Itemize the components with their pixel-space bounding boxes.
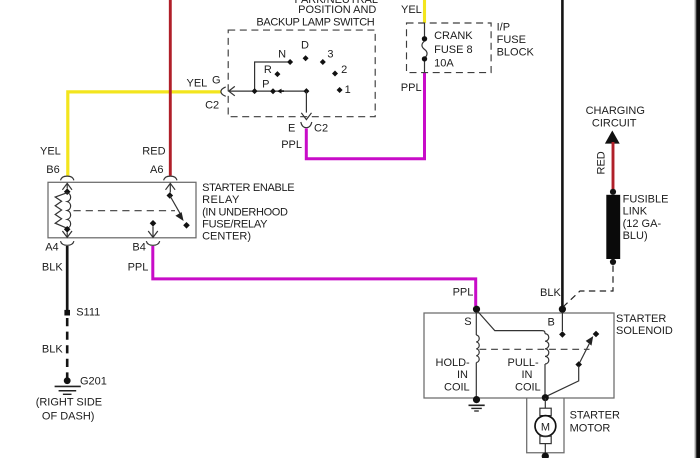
svg-text:FUSE 8: FUSE 8 [434,44,473,56]
pin B6 arrow [62,183,72,189]
svg-text:PPL: PPL [401,82,422,94]
node junction G-line left [252,88,258,94]
node motor bottom [542,453,549,458]
node motor feed [542,394,549,401]
node terminal S [473,306,480,313]
svg-text:IN: IN [522,369,533,381]
wire BLK relay A4 to splice S111 [66,246,69,311]
svg-text:HOLD-: HOLD- [436,357,471,369]
pin A6 arrow [166,183,176,192]
wire RED feed to relay A6 [169,0,172,176]
contact P [270,88,276,94]
label PPL at solenoid [453,287,474,299]
svg-text:PULL-: PULL- [508,357,540,369]
svg-text:IN: IN [457,369,468,381]
labels A4 BLK B4 PPL [42,242,148,274]
label STARTER SOLENOID [616,313,673,337]
svg-text:1: 1 [345,84,351,96]
svg-text:OF DASH): OF DASH) [42,410,95,422]
svg-text:PPL: PPL [453,287,474,299]
ground G201 [55,377,81,394]
svg-text:S: S [464,316,471,328]
wire S to hold-in coil [475,312,477,335]
wire BLK battery feed to solenoid B [561,0,564,306]
connector C2 pin G (female half) [221,87,226,96]
starter solenoid enclosure [424,313,614,398]
label YEL / G / C2 at switch [187,75,221,112]
wiper arrowhead at P [277,89,284,94]
solenoid switch arm [579,336,594,364]
svg-text:R: R [264,64,272,76]
page border right edge [695,0,700,458]
relay label [202,182,294,243]
contact 2 [332,71,338,77]
svg-text:RELAY: RELAY [202,194,240,206]
svg-text:COIL: COIL [444,381,470,393]
svg-text:COIL: COIL [515,381,541,393]
arrow to charging circuit [605,131,620,144]
label G201 [80,376,107,388]
svg-text:M: M [541,421,550,433]
node fusible link bottom [610,259,616,265]
relay coil [55,193,70,229]
svg-text:BLK: BLK [42,344,63,356]
svg-text:CRANK: CRANK [434,30,473,42]
svg-text:YEL: YEL [187,78,208,90]
motor frame [527,398,564,453]
ground at solenoid case [469,405,485,411]
svg-text:G: G [212,75,221,87]
connector terminal A4 (female half) [61,241,74,245]
pin B4 arrow [148,227,158,238]
wire node to motor [544,398,546,408]
wire B to contact [561,313,563,331]
fuse CRANK FUSE 8 10A [422,23,427,73]
svg-text:(RIGHT SIDE: (RIGHT SIDE [36,397,102,409]
svg-text:N: N [278,49,286,61]
fusible link (12 GA-BLU) [606,195,620,259]
wire pull-in coil to motor node [544,364,546,396]
I/P fuse block enclosure (dashed) [407,23,492,73]
switch position labels [262,39,351,96]
solenoid switch pivot [575,361,582,368]
pin A4 arrow [62,231,72,237]
wire BLK S111 to G201 (dashed) [66,318,69,378]
label BLK [42,344,63,356]
node fusible link top [610,189,616,195]
svg-text:FUSE: FUSE [497,34,526,46]
svg-text:RED: RED [596,151,608,174]
svg-text:LINK: LINK [623,206,648,218]
contact N [287,59,293,65]
svg-text:P: P [262,79,269,91]
svg-text:STARTER ENABLE: STARTER ENABLE [202,182,294,194]
svg-text:FUSIBLE: FUSIBLE [623,194,669,206]
node junction common right [303,88,309,94]
connector terminal B6 (female half) [61,176,74,180]
svg-text:C2: C2 [205,100,219,112]
node terminal B [559,306,566,313]
relay linkage (dashed) [74,210,176,212]
svg-text:I/P: I/P [497,22,510,34]
svg-text:BACKUP LAMP SWITCH: BACKUP LAMP SWITCH [256,17,374,29]
svg-text:SOLENOID: SOLENOID [616,325,673,337]
wire S to pull-in coil [478,312,545,334]
svg-text:2: 2 [341,64,347,76]
wire common to pin E [305,91,307,113]
label S111 [76,306,100,318]
fuse value labels [434,30,473,70]
wire YEL feed to I/P fuse block [423,0,426,23]
wire YEL from switch G to relay B6 [68,92,221,176]
svg-text:S111: S111 [76,306,100,318]
wire PPL switch E to crank fuse [306,73,424,159]
wiper arm link toward N [255,62,288,91]
starter enable relay K1 enclosure [48,182,196,238]
label BLK at solenoid [540,287,561,299]
svg-text:BLU): BLU) [623,230,648,242]
contact R [274,71,280,77]
pin G arrow into switch [229,86,235,95]
relay contact to B4 [150,220,157,227]
svg-text:10A: 10A [434,57,454,69]
switch enclosure (dashed) [228,30,375,117]
wire pivot to motor node [548,366,579,396]
node hold-in ground [473,396,480,403]
svg-text:YEL: YEL [401,4,422,16]
wire hold-in coil to ground [475,363,477,397]
svg-text:YEL: YEL [40,146,61,158]
label CHARGING CIRCUIT [586,105,645,129]
svg-text:A6: A6 [150,164,163,176]
connector C2 pin E (female half) [301,122,312,128]
svg-text:BLK: BLK [540,287,561,299]
labels YEL B6 RED A6 [40,146,166,177]
contact 1 [337,87,343,93]
switch wiper wire G to common [229,90,307,92]
svg-text:3: 3 [327,49,333,61]
connector terminal A6 (female half) [164,176,177,180]
svg-text:(12 GA-: (12 GA- [623,218,662,230]
relay arm rest contact [183,222,190,229]
labels S B [464,316,555,329]
svg-text:FUSE/RELAY: FUSE/RELAY [202,219,268,231]
solenoid linkage (dashed) [480,348,590,350]
node coil top [64,188,71,195]
svg-text:CIRCUIT: CIRCUIT [592,117,637,129]
svg-text:G201: G201 [80,376,107,388]
hold-in coil [476,335,479,363]
pull-in coil [545,334,549,364]
contact D [303,55,309,61]
label HOLD-IN COIL [436,357,471,393]
wire RED to charging circuit [612,142,615,190]
label PPL below fuse block [401,82,422,94]
svg-text:C2: C2 [314,123,328,135]
svg-text:A4: A4 [45,242,58,254]
label STARTER MOTOR [570,409,620,434]
label PULL-IN COIL [508,357,541,393]
starter motor M1 [535,408,556,453]
label I/P FUSE BLOCK [497,22,535,59]
wire fusible link to battery feed (dashed) [564,266,614,307]
relay switch pivot [167,192,174,199]
svg-text:MOTOR: MOTOR [570,422,611,434]
connector terminal B4 (female half) [146,241,159,245]
svg-text:PPL: PPL [281,139,302,151]
pin E arrow out of switch [301,113,311,120]
svg-text:B6: B6 [46,164,59,176]
label (RIGHT SIDE OF DASH) [36,397,102,423]
svg-text:POSITION AND: POSITION AND [298,4,376,16]
label FUSIBLE LINK [623,194,669,243]
svg-text:RED: RED [142,146,165,158]
node coil bottom [64,226,71,233]
solenoid contact at B [559,331,566,338]
svg-text:(IN UNDERHOOD: (IN UNDERHOOD [202,206,288,218]
svg-text:B4: B4 [132,242,145,254]
splice S111 [64,310,70,316]
relay switch arm [170,196,184,222]
svg-text:STARTER: STARTER [570,409,620,421]
solenoid moving contact [593,331,600,338]
svg-text:D: D [301,39,309,51]
svg-text:B: B [548,317,555,329]
svg-text:CHARGING: CHARGING [586,105,645,117]
svg-text:STARTER: STARTER [616,313,666,325]
label YEL at fuse [401,4,422,16]
transaxle range / backup lamp switch S1 [256,0,378,29]
svg-text:CENTER): CENTER) [202,231,251,243]
svg-text:BLK: BLK [42,262,63,274]
contact 3 [320,59,326,65]
labels E / C2 / PPL below switch [281,123,328,151]
svg-text:PPL: PPL [128,262,149,274]
svg-text:E: E [288,123,295,135]
wire PPL relay B4 to solenoid S [153,246,476,306]
svg-text:BLOCK: BLOCK [497,46,535,58]
label RED (rotated) [596,151,608,174]
